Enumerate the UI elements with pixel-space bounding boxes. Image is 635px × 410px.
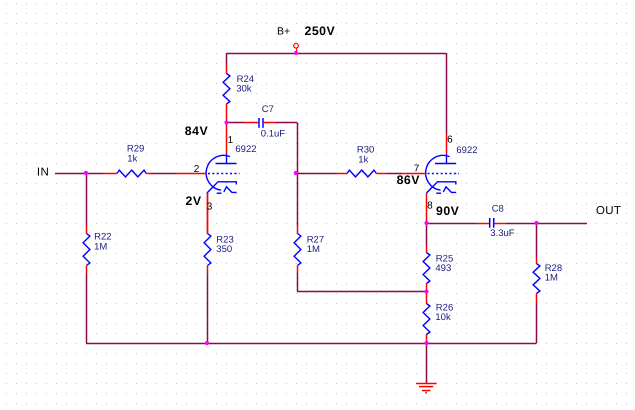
resistor R30 xyxy=(337,145,386,177)
svg-text:493: 493 xyxy=(435,263,451,274)
wire node2 to R30 xyxy=(297,173,337,175)
capacitor C7 xyxy=(244,104,285,139)
resistor R26 xyxy=(423,292,453,344)
wire output row left xyxy=(427,223,478,225)
svg-text:IN: IN xyxy=(37,166,49,178)
wire IN node to R29 xyxy=(86,173,103,175)
triode U2 6922 xyxy=(426,145,478,193)
svg-text:C8: C8 xyxy=(492,204,504,215)
junction B+ xyxy=(294,51,298,55)
svg-text:6922: 6922 xyxy=(456,145,477,156)
resistor R22 xyxy=(83,225,111,273)
pin 6 lead xyxy=(446,133,448,154)
pin 3 lead xyxy=(207,193,209,233)
wire C8 to R28 node xyxy=(505,223,536,225)
svg-text:90V: 90V xyxy=(436,204,460,218)
resistor R27 xyxy=(294,226,324,274)
wire IN lead xyxy=(55,173,86,175)
svg-text:8: 8 xyxy=(427,201,433,212)
svg-text:2V: 2V xyxy=(186,194,202,208)
wire R30 to grid2 xyxy=(386,173,402,175)
svg-text:OUT: OUT xyxy=(596,205,621,217)
wire B+ rail xyxy=(227,53,447,55)
svg-text:6: 6 xyxy=(447,135,453,146)
svg-text:250V: 250V xyxy=(305,24,336,38)
svg-text:1M: 1M xyxy=(307,244,320,255)
svg-text:1: 1 xyxy=(228,135,234,146)
junction R24/C7 xyxy=(224,120,228,124)
svg-text:0.1uF: 0.1uF xyxy=(261,129,285,140)
wire cathode2 node to R25 xyxy=(426,223,428,246)
wire R28 to bottom rail xyxy=(536,303,538,343)
wire plate2 drop xyxy=(446,53,448,133)
svg-text:1M: 1M xyxy=(94,242,107,253)
wire C7 right xyxy=(276,122,297,124)
wire R28 top stub xyxy=(536,223,538,257)
wire R28 node to OUT xyxy=(537,223,588,225)
svg-text:350: 350 xyxy=(216,244,232,255)
svg-text:84V: 84V xyxy=(185,124,209,138)
svg-text:1M: 1M xyxy=(545,273,558,284)
terminal B+ xyxy=(294,43,299,53)
triode U1 6922 xyxy=(206,144,256,193)
ground xyxy=(416,384,437,393)
wire ground stem xyxy=(426,343,428,383)
pin 8 lead xyxy=(426,193,428,223)
wire node2 to R27 xyxy=(297,173,299,226)
junction R25/R26 xyxy=(424,289,428,293)
junction cathode2 node xyxy=(424,221,428,225)
pin 7 lead xyxy=(402,173,426,175)
junction C8/R28 xyxy=(534,221,538,225)
junction R23 bottom xyxy=(205,341,209,345)
svg-text:10k: 10k xyxy=(435,312,451,323)
svg-text:86V: 86V xyxy=(397,173,421,187)
junction ground node xyxy=(424,341,428,345)
svg-text:30k: 30k xyxy=(236,84,252,95)
resistor R28 xyxy=(533,257,562,303)
svg-text:1k: 1k xyxy=(358,154,368,165)
resistor R29 xyxy=(103,143,151,177)
wire R23 to bottom rail xyxy=(207,274,209,343)
wire IN node to R22 xyxy=(86,173,88,225)
wire R27 bottom xyxy=(297,274,427,292)
junction interstage node xyxy=(294,171,298,175)
wire bottom rail xyxy=(86,343,537,345)
resistor R23 xyxy=(204,193,234,274)
svg-text:B+: B+ xyxy=(277,25,290,37)
svg-text:3.3uF: 3.3uF xyxy=(490,228,514,239)
wire C7 to node2 xyxy=(297,123,299,174)
resistor R24 xyxy=(223,65,254,123)
junction IN node xyxy=(84,171,88,175)
svg-text:C7: C7 xyxy=(262,104,274,115)
capacitor C8 xyxy=(477,204,515,239)
wire C7 left xyxy=(227,122,245,124)
svg-text:3: 3 xyxy=(207,202,213,213)
wire R24 top stub xyxy=(226,53,228,65)
resistor R25 xyxy=(423,246,453,292)
svg-text:2: 2 xyxy=(194,164,200,175)
wire R22 to bottom rail xyxy=(86,273,88,343)
wire R29 to grid1 xyxy=(151,173,177,175)
pin 2 lead xyxy=(176,173,207,175)
svg-text:6922: 6922 xyxy=(235,144,256,155)
svg-text:1k: 1k xyxy=(127,153,137,164)
pin 1 lead xyxy=(226,123,228,155)
